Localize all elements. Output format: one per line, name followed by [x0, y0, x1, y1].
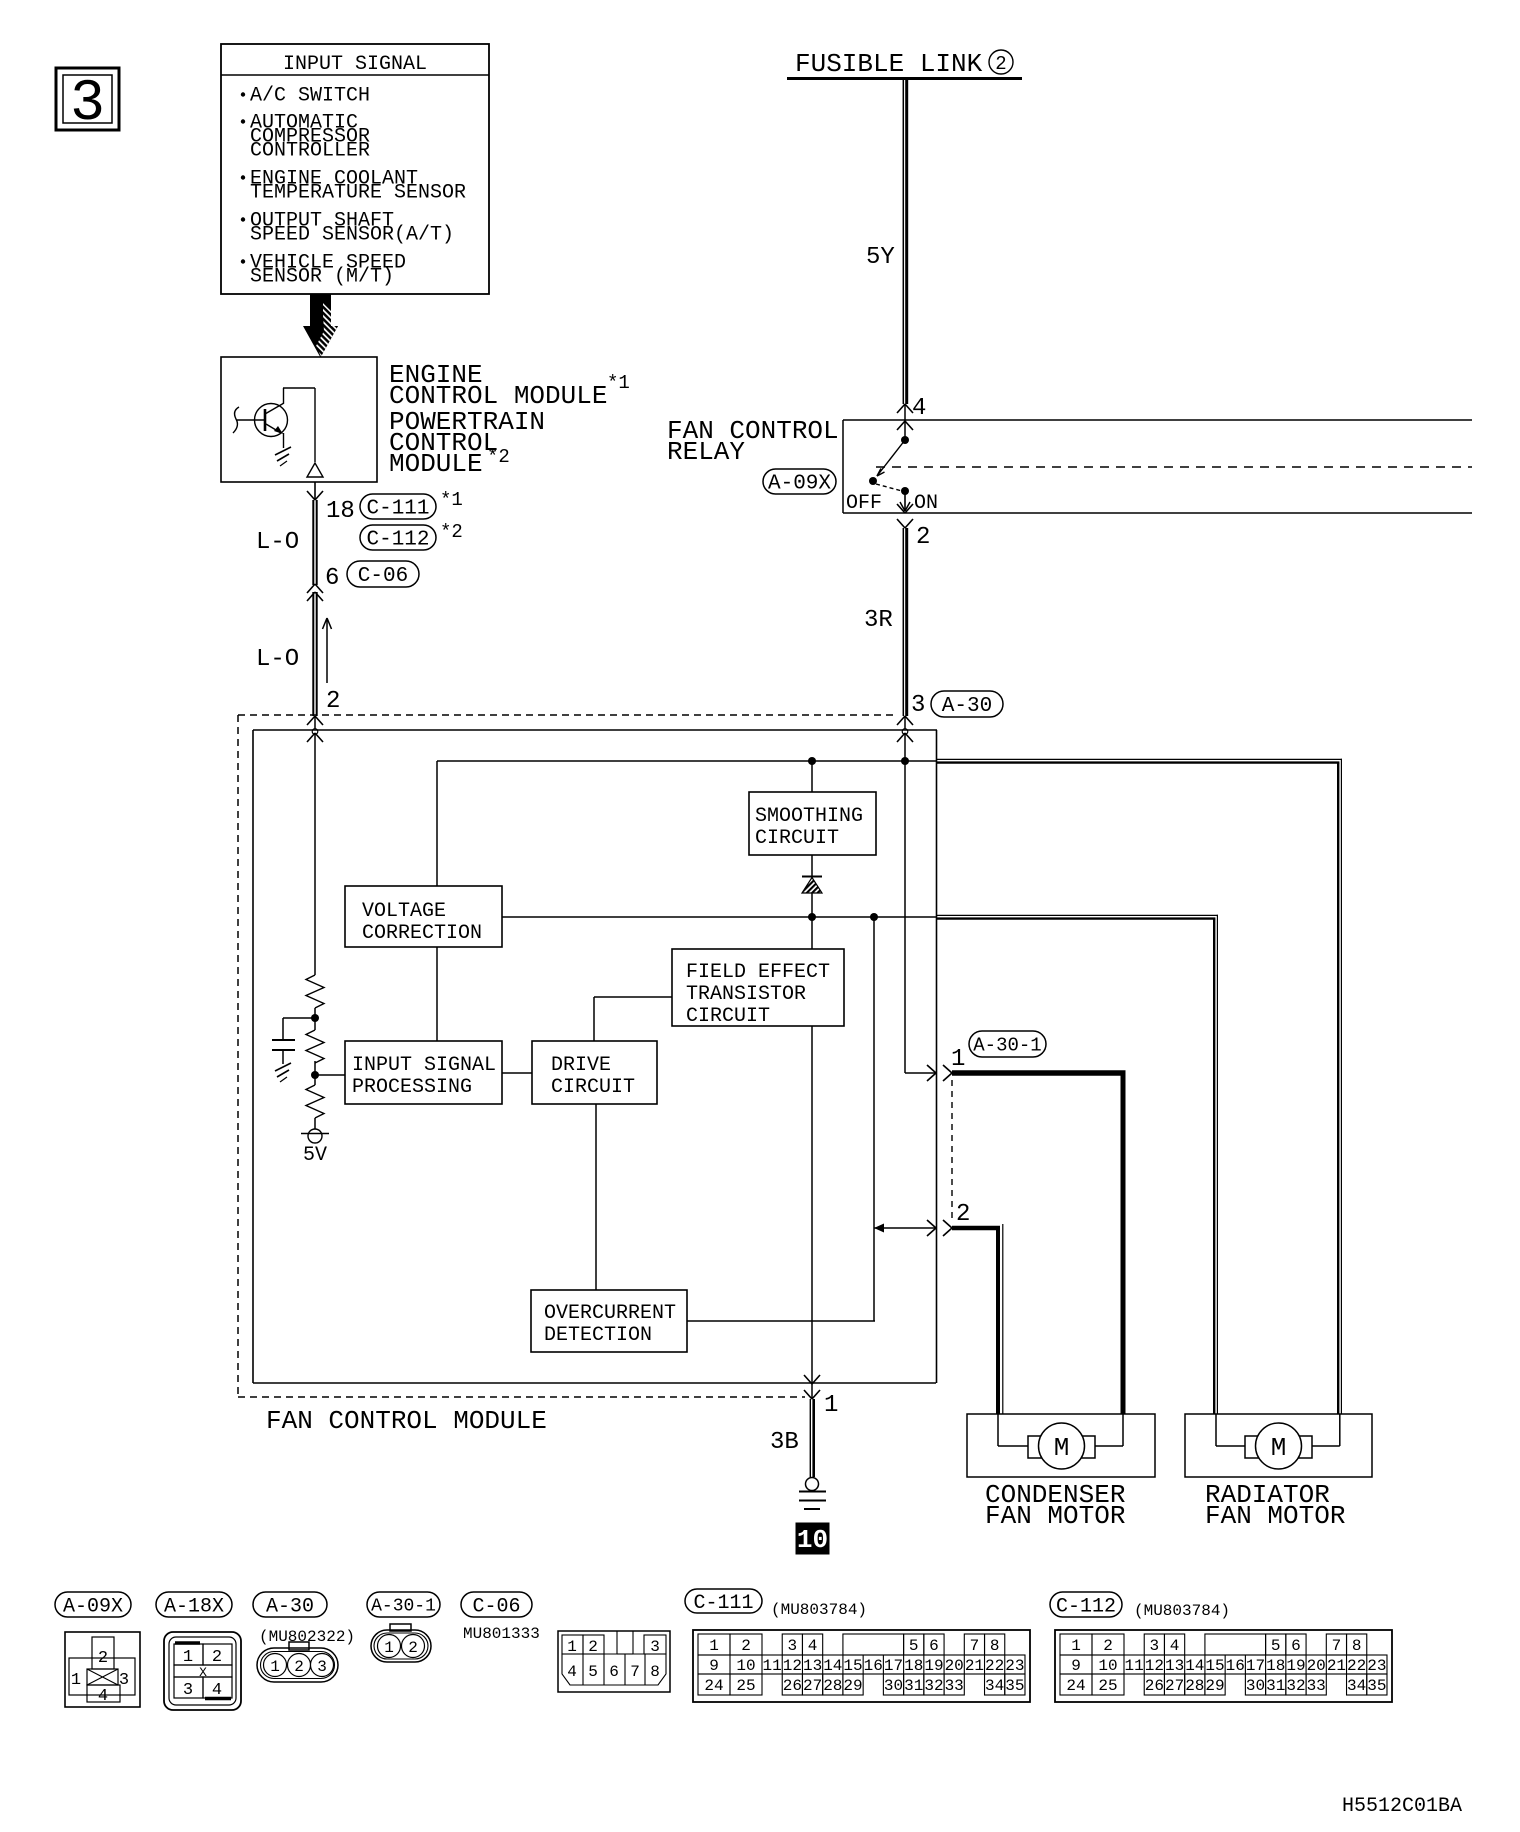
fan control module dashed boundary: [238, 715, 898, 1397]
wire VC-junction down: [873, 917, 875, 1321]
svg-text:32: 32: [1286, 1677, 1305, 1695]
svg-text:24: 24: [704, 1677, 723, 1695]
svg-text:2: 2: [995, 53, 1006, 75]
svg-text:4: 4: [567, 1663, 577, 1681]
connector drawing C-111 pin grid: [693, 1630, 1030, 1702]
svg-text:3: 3: [650, 1638, 660, 1656]
svg-text:A-30-1: A-30-1: [973, 1034, 1041, 1056]
svg-text:17: 17: [884, 1657, 903, 1675]
svg-text:34: 34: [1347, 1677, 1366, 1695]
svg-text:C-112: C-112: [366, 529, 429, 552]
svg-text:CORRECTION: CORRECTION: [362, 922, 482, 945]
svg-text:2: 2: [1103, 1637, 1113, 1655]
wire 3R: [864, 528, 907, 716]
svg-text:RELAY: RELAY: [667, 437, 745, 467]
svg-text:*2: *2: [487, 446, 510, 468]
svg-text:MODULE: MODULE: [389, 449, 483, 479]
svg-text:4: 4: [1170, 1637, 1180, 1655]
connector pin 1 A-30-1: [927, 1031, 1046, 1081]
svg-text:3R: 3R: [864, 607, 893, 634]
svg-text:16: 16: [1226, 1657, 1245, 1675]
svg-text:3: 3: [70, 72, 105, 137]
INPUT SIGNAL PROCESSING box: [345, 1041, 502, 1104]
svg-text:1: 1: [183, 1648, 193, 1667]
FIELD EFFECT TRANSISTOR CIRCUIT box: [672, 949, 844, 1028]
connector label A-18X: [156, 1592, 232, 1618]
condenser fan motor label: [985, 1480, 1125, 1531]
svg-text:X: X: [199, 1665, 207, 1680]
svg-text:2: 2: [408, 1639, 418, 1657]
svg-text:29: 29: [843, 1677, 862, 1695]
svg-text:28: 28: [1185, 1677, 1204, 1695]
svg-text:1: 1: [384, 1639, 394, 1657]
svg-text:M: M: [1054, 1433, 1070, 1463]
node divider top: [311, 1008, 319, 1030]
svg-text:3: 3: [911, 692, 925, 719]
svg-text:3: 3: [788, 1637, 798, 1655]
svg-text:21: 21: [1327, 1657, 1346, 1675]
svg-text:3: 3: [183, 1681, 193, 1700]
svg-text:7: 7: [970, 1637, 980, 1655]
svg-text:22: 22: [1347, 1657, 1366, 1675]
svg-text:35: 35: [1367, 1677, 1386, 1695]
svg-text:15: 15: [1205, 1657, 1224, 1675]
node divider mid: [311, 1061, 345, 1085]
svg-text:SMOOTHING: SMOOTHING: [755, 805, 863, 828]
svg-text:8: 8: [650, 1663, 660, 1681]
svg-text:12: 12: [783, 1657, 802, 1675]
svg-text:TRANSISTOR: TRANSISTOR: [686, 983, 806, 1006]
svg-text:19: 19: [1286, 1657, 1305, 1675]
svg-text:A-30: A-30: [266, 1595, 314, 1618]
svg-text:29: 29: [1205, 1677, 1224, 1695]
svg-text:23: 23: [1367, 1657, 1386, 1675]
svg-text:26: 26: [783, 1677, 802, 1695]
wire smoothing top: [811, 761, 813, 792]
svg-text:16: 16: [864, 1657, 883, 1675]
VOLTAGE CORRECTION box: [345, 886, 502, 947]
wire overcurrent to bus: [687, 1320, 875, 1322]
svg-text:10: 10: [797, 1525, 828, 1555]
ECM/PCM box U1: [221, 357, 377, 482]
svg-text:7: 7: [630, 1663, 640, 1681]
ECM labels: [389, 360, 630, 479]
svg-text:L-O: L-O: [256, 646, 299, 673]
svg-text:1: 1: [71, 1671, 81, 1690]
svg-text:3: 3: [1150, 1637, 1160, 1655]
radiator fan motor M2: [1185, 1414, 1372, 1477]
svg-text:(MU803784): (MU803784): [771, 1601, 867, 1619]
svg-text:2: 2: [588, 1638, 598, 1656]
wire drive to overcurrent: [595, 1104, 597, 1290]
radiator fan motor label: [1205, 1480, 1345, 1531]
svg-text:A-30-1: A-30-1: [371, 1597, 436, 1617]
svg-text:6: 6: [325, 565, 339, 592]
fusible link 2 supply: [787, 49, 1022, 79]
svg-text:24: 24: [1066, 1677, 1085, 1695]
svg-text:5: 5: [588, 1663, 598, 1681]
thick wire pin2 to condenser fan: [952, 1224, 1003, 1414]
wire bus to radiator fan right: [937, 759, 1342, 1414]
svg-text:2: 2: [956, 1201, 970, 1228]
svg-text:13: 13: [803, 1657, 822, 1675]
svg-text:14: 14: [1185, 1657, 1204, 1675]
connector drawing A-30: [257, 1642, 338, 1682]
bus wire mid (y917): [502, 913, 937, 921]
fan control module inner box: [253, 730, 937, 1383]
svg-text:FAN MOTOR: FAN MOTOR: [985, 1501, 1125, 1531]
svg-text:22: 22: [985, 1657, 1004, 1675]
svg-text:4: 4: [98, 1687, 108, 1706]
svg-text:12: 12: [1145, 1657, 1164, 1675]
wire ISP to drive: [502, 1072, 532, 1074]
svg-text:6: 6: [609, 1663, 619, 1681]
SMOOTHING CIRCUIT box: [749, 792, 876, 855]
svg-text:10: 10: [736, 1657, 755, 1675]
connector label A-30: [253, 1592, 355, 1646]
wire FET down to pin1: [811, 917, 813, 1383]
svg-text:18: 18: [326, 498, 355, 525]
svg-text:2: 2: [741, 1637, 751, 1655]
svg-text:C-111: C-111: [693, 1592, 753, 1615]
capacitor C1: [272, 1018, 315, 1082]
svg-text:A-18X: A-18X: [164, 1595, 224, 1618]
svg-text:8: 8: [1352, 1637, 1362, 1655]
FCM ground pin 1: [804, 1375, 838, 1419]
relay pin 2 connector: [897, 504, 930, 551]
svg-text:2: 2: [294, 1658, 304, 1676]
svg-text:5Y: 5Y: [866, 244, 895, 271]
svg-text:15: 15: [843, 1657, 862, 1675]
input signal arrow: [303, 294, 338, 358]
svg-text:35: 35: [1005, 1677, 1024, 1695]
transistor Q1: [233, 388, 323, 477]
svg-text:1: 1: [270, 1658, 280, 1676]
svg-text:INPUT SIGNAL: INPUT SIGNAL: [283, 53, 427, 76]
pin 18 connector C-111/C-112: [307, 482, 463, 552]
svg-text:18: 18: [1266, 1657, 1285, 1675]
wire T to pin2: [874, 1224, 936, 1233]
svg-text:31: 31: [1266, 1677, 1285, 1695]
fan control module label: [266, 1406, 547, 1436]
svg-text:A-30: A-30: [942, 695, 992, 718]
ground ref box 10: [796, 1523, 829, 1555]
connector label C-111: [685, 1589, 867, 1619]
5V supply: [301, 1118, 329, 1167]
connector label A-09X: [55, 1592, 131, 1618]
svg-text:1: 1: [824, 1392, 838, 1419]
svg-text:32: 32: [924, 1677, 943, 1695]
page marker 3: [56, 68, 119, 137]
svg-text:25: 25: [736, 1677, 755, 1695]
svg-text:30: 30: [1246, 1677, 1265, 1695]
svg-text:FUSIBLE LINK: FUSIBLE LINK: [795, 49, 983, 79]
condenser fan motor M1: [967, 1414, 1155, 1477]
svg-text:10: 10: [1098, 1657, 1117, 1675]
relay pin 4 connector: [897, 395, 926, 440]
svg-text:2: 2: [326, 688, 340, 715]
svg-text:6: 6: [929, 1637, 939, 1655]
svg-text:9: 9: [1071, 1657, 1081, 1675]
diode D1: [802, 855, 822, 917]
wire drive to FET: [594, 997, 672, 1041]
svg-text:C-111: C-111: [366, 498, 429, 521]
svg-text:6: 6: [1291, 1637, 1301, 1655]
wire 5Y: [866, 80, 907, 404]
svg-text:CIRCUIT: CIRCUIT: [551, 1076, 635, 1099]
svg-text:CONTROLLER: CONTROLLER: [250, 140, 370, 163]
svg-text:C-06: C-06: [358, 565, 408, 588]
svg-text:SENSOR (M/T): SENSOR (M/T): [250, 266, 394, 289]
svg-text:1: 1: [951, 1046, 965, 1073]
relay switch: [846, 436, 938, 515]
svg-text:7: 7: [1332, 1637, 1342, 1655]
svg-text:M: M: [1271, 1433, 1287, 1463]
svg-text:11: 11: [1125, 1657, 1144, 1675]
svg-text:MU801333: MU801333: [463, 1625, 540, 1643]
wire L-O (ECM to C-06): [256, 500, 317, 585]
connector drawing C-112 pin grid: [1055, 1630, 1392, 1702]
svg-text:27: 27: [803, 1677, 822, 1695]
DRIVE CIRCUIT box: [532, 1041, 657, 1104]
svg-text:FIELD EFFECT: FIELD EFFECT: [686, 961, 830, 984]
svg-text:CIRCUIT: CIRCUIT: [686, 1005, 770, 1028]
svg-text:13: 13: [1165, 1657, 1184, 1675]
svg-text:1: 1: [1071, 1637, 1081, 1655]
svg-text:30: 30: [884, 1677, 903, 1695]
svg-text:3: 3: [317, 1658, 327, 1676]
svg-text:FAN CONTROL MODULE: FAN CONTROL MODULE: [266, 1406, 547, 1436]
svg-text:2: 2: [212, 1648, 222, 1667]
svg-text:PROCESSING: PROCESSING: [352, 1076, 472, 1099]
wire: FCM input to divider: [314, 733, 316, 975]
svg-text:2: 2: [98, 1649, 108, 1668]
document number: [1342, 1795, 1462, 1818]
svg-text:14: 14: [823, 1657, 842, 1675]
svg-text:FAN MOTOR: FAN MOTOR: [1205, 1501, 1345, 1531]
fan control relay box: [843, 420, 1472, 513]
svg-text:1: 1: [709, 1637, 719, 1655]
svg-text:5V: 5V: [303, 1144, 327, 1167]
svg-text:VOLTAGE: VOLTAGE: [362, 900, 446, 923]
svg-text:26: 26: [1145, 1677, 1164, 1695]
svg-text:25: 25: [1098, 1677, 1117, 1695]
connector dashed link pin1-pin2: [951, 1080, 953, 1222]
bus wire top (y761): [437, 757, 937, 765]
connector drawing A-30-1: [371, 1624, 431, 1662]
resistor R1: [306, 975, 324, 1008]
svg-text:OVERCURRENT: OVERCURRENT: [544, 1302, 676, 1325]
svg-text:11: 11: [763, 1657, 782, 1675]
svg-text:34: 34: [985, 1677, 1004, 1695]
connector label A-30-1: [367, 1592, 440, 1617]
svg-text:H5512C01BA: H5512C01BA: [1342, 1795, 1462, 1818]
connector drawing A-18X: [164, 1632, 241, 1710]
OVERCURRENT DETECTION box: [531, 1290, 687, 1352]
svg-text:31: 31: [904, 1677, 923, 1695]
svg-text:9: 9: [709, 1657, 719, 1675]
connector C-06 junction: [307, 561, 419, 601]
svg-text:A-09X: A-09X: [63, 1595, 123, 1618]
svg-text:CIRCUIT: CIRCUIT: [755, 827, 839, 850]
svg-text:4: 4: [912, 395, 926, 422]
wire L-O (C-06 to FCM): [256, 592, 340, 716]
svg-text:18: 18: [904, 1657, 923, 1675]
svg-text:ON: ON: [914, 492, 938, 515]
svg-text:28: 28: [823, 1677, 842, 1695]
svg-text:3: 3: [119, 1671, 129, 1690]
FCM entry connector pin 3 A-30: [897, 691, 1003, 742]
wire supply down (x905): [905, 733, 936, 1073]
svg-text:20: 20: [945, 1657, 964, 1675]
svg-text:19: 19: [924, 1657, 943, 1675]
svg-text:33: 33: [1307, 1677, 1326, 1695]
svg-text:C-112: C-112: [1056, 1595, 1116, 1618]
svg-text:DETECTION: DETECTION: [544, 1324, 652, 1347]
svg-text:C-06: C-06: [472, 1595, 520, 1618]
svg-text:TEMPERATURE SENSOR: TEMPERATURE SENSOR: [250, 182, 466, 205]
svg-text:(MU802322): (MU802322): [259, 1628, 355, 1646]
connector drawing C-06: [558, 1631, 670, 1692]
svg-text:*2: *2: [440, 521, 463, 543]
svg-text:27: 27: [1165, 1677, 1184, 1695]
wire 3B: [770, 1399, 814, 1477]
svg-text:*1: *1: [440, 489, 463, 511]
connector label C-06: [461, 1592, 540, 1643]
svg-text:5: 5: [1271, 1637, 1281, 1655]
FCM entry connector pin 2: [307, 716, 323, 742]
svg-text:2: 2: [916, 524, 930, 551]
svg-text:21: 21: [965, 1657, 984, 1675]
svg-text:DRIVE: DRIVE: [551, 1054, 611, 1077]
ground: [799, 1478, 826, 1510]
svg-text:8: 8: [990, 1637, 1000, 1655]
thick wire pin1 to condenser fan: [952, 1073, 1126, 1414]
svg-text:*1: *1: [607, 372, 630, 394]
svg-text:(MU803784): (MU803784): [1134, 1602, 1230, 1620]
relay labels: [667, 416, 839, 496]
resistor R2: [306, 1030, 324, 1063]
connector drawing A-09X: [65, 1632, 140, 1707]
svg-text:3B: 3B: [770, 1429, 799, 1456]
svg-text:4: 4: [212, 1681, 222, 1700]
connector label C-112: [1050, 1592, 1230, 1620]
svg-text:OFF: OFF: [846, 492, 882, 515]
svg-text:SPEED SENSOR(A/T): SPEED SENSOR(A/T): [250, 224, 454, 247]
svg-text:1: 1: [567, 1638, 577, 1656]
svg-text:L-O: L-O: [256, 529, 299, 556]
wire VC bottom: [436, 947, 438, 1041]
svg-text:20: 20: [1307, 1657, 1326, 1675]
svg-text:INPUT SIGNAL: INPUT SIGNAL: [352, 1054, 496, 1077]
svg-text:23: 23: [1005, 1657, 1024, 1675]
svg-text:4: 4: [808, 1637, 818, 1655]
svg-text:5: 5: [909, 1637, 919, 1655]
connector pin 2 A-30-1: [927, 1201, 970, 1236]
svg-text:A/C SWITCH: A/C SWITCH: [250, 85, 370, 108]
svg-text:33: 33: [945, 1677, 964, 1695]
wire VC top: [436, 761, 438, 886]
svg-text:17: 17: [1246, 1657, 1265, 1675]
resistor R3: [306, 1085, 324, 1118]
svg-text:A-09X: A-09X: [768, 473, 831, 496]
wire bus to radiator fan left: [937, 915, 1218, 1414]
INPUT SIGNAL box: [221, 44, 489, 294]
